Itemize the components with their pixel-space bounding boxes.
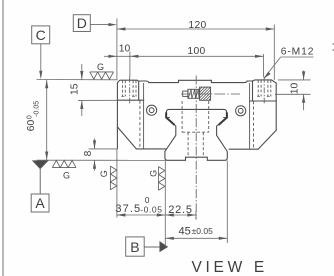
svg-text:D: D xyxy=(77,15,87,31)
svg-text:G: G xyxy=(97,62,104,72)
datum box C xyxy=(32,26,50,44)
datum B filled triangle and leader xyxy=(144,242,167,252)
left boss hole centerline (dash-dot) xyxy=(129,77,131,104)
datum box D xyxy=(73,15,90,32)
svg-text:100: 100 xyxy=(187,46,205,57)
extension line block left edge downward (for 37.5) xyxy=(116,150,118,218)
end plate seam left xyxy=(143,83,145,149)
datum C leader arrow xyxy=(39,44,42,80)
svg-text:VIEW E: VIEW E xyxy=(192,259,268,276)
svg-text:-0.05: -0.05 xyxy=(140,204,162,214)
surface mark G on rail side surface (rotated) xyxy=(148,167,165,191)
vertical centerline (dash-dot) xyxy=(195,76,197,220)
nipple horizontal centerline (dash-dot, extends right for 10 dim) xyxy=(181,93,311,95)
datum box B xyxy=(126,237,145,256)
extension line rail base left edge downward (B datum) xyxy=(164,161,166,248)
sheet border left xyxy=(2,0,4,276)
title VIEW E xyxy=(192,259,268,276)
datum box A xyxy=(31,194,49,212)
grease nipple shank (threaded) xyxy=(188,89,200,98)
svg-text:8: 8 xyxy=(83,150,94,156)
extension line x=274.3 (block right edge) xyxy=(273,25,275,80)
svg-text:22.5: 22.5 xyxy=(168,204,193,216)
hidden lip line right (dashed) xyxy=(253,101,255,149)
block outline: left boss xyxy=(117,80,178,149)
dim 15 vertical (left) xyxy=(70,64,84,116)
label 6-M12 with leader xyxy=(263,47,314,80)
rail groove lip ticks xyxy=(166,116,227,118)
dim 37.5 0/-0.05 xyxy=(115,195,165,217)
right boss tapped holes (dashed) xyxy=(257,80,272,96)
extension line x=117 (block left edge) xyxy=(116,19,118,80)
svg-text:±0.05: ±0.05 xyxy=(192,226,213,236)
left boss tapped holes (dashed) xyxy=(121,80,137,96)
svg-text:0: 0 xyxy=(27,115,34,119)
surface mark G on top surface xyxy=(90,62,114,79)
svg-text:60: 60 xyxy=(26,119,37,131)
svg-text:6-M12: 6-M12 xyxy=(281,47,315,58)
svg-text:G: G xyxy=(63,171,70,181)
svg-text:15: 15 xyxy=(70,83,81,95)
svg-text:G: G xyxy=(148,170,158,177)
rail bolt counterbore (hidden) xyxy=(182,101,209,132)
svg-text:10: 10 xyxy=(289,83,300,95)
dim 120 xyxy=(117,20,274,31)
svg-text:-0.05: -0.05 xyxy=(34,101,41,117)
svg-text:B: B xyxy=(130,239,139,255)
rail profile outline xyxy=(165,109,227,160)
svg-text:120: 120 xyxy=(188,20,206,31)
grease tab on top center xyxy=(179,80,212,83)
extension line rail centerline lower stub xyxy=(195,211,197,219)
dim 45 +-0.05 xyxy=(165,225,227,240)
dim 60 0/-0.05 vertical xyxy=(26,80,48,160)
boss-bottom extension line (for 15 dim) xyxy=(78,99,117,101)
svg-text:37.5: 37.5 xyxy=(115,203,141,215)
dim 22.5 xyxy=(165,204,196,217)
rail groove dark arcs xyxy=(166,113,227,124)
dim 8 vertical xyxy=(83,139,96,171)
svg-text:G: G xyxy=(99,170,109,177)
block-bottom extension line (for 8 dim) xyxy=(89,148,118,150)
surface mark G on block side surface (rotated) xyxy=(99,166,117,190)
extension line x=263.5 (right hole centerline) xyxy=(263,54,265,77)
grease nipple head (hatched) xyxy=(200,87,211,100)
svg-text:10: 10 xyxy=(119,44,131,55)
block outline: top right and right boss xyxy=(211,80,276,130)
svg-text:45: 45 xyxy=(179,225,191,237)
extension line x=130 (left hole centerline) xyxy=(129,52,131,78)
svg-text:0: 0 xyxy=(145,195,150,205)
dim 100 and dim 10 (top) xyxy=(104,44,264,58)
rail bolt through hole (hidden) xyxy=(188,132,203,157)
svg-text:A: A xyxy=(35,195,45,211)
end plate seam right xyxy=(249,83,251,149)
block lower chamfers and bottom xyxy=(117,127,276,149)
grease nipple tip xyxy=(183,91,188,96)
svg-text:C: C xyxy=(36,27,46,43)
dim 10 vertical (right side, nipple height) xyxy=(278,71,311,111)
datum A filled triangle and leader xyxy=(33,161,48,194)
extension line rail base right edge downward xyxy=(226,161,228,244)
top surface extension line (left) xyxy=(37,79,118,81)
flange bolt hole right (double circle) xyxy=(236,106,246,116)
bottom reference surface extension line xyxy=(37,159,167,161)
right boss hole centerline (dash-dot) xyxy=(263,77,265,104)
datum D leader arrow xyxy=(90,23,117,26)
partial mark at right edge xyxy=(333,44,334,51)
flange bolt hole left (double circle) xyxy=(147,105,157,115)
surface mark G on bottom reference surface xyxy=(52,160,76,180)
hidden lip line left (dashed) xyxy=(139,101,141,149)
